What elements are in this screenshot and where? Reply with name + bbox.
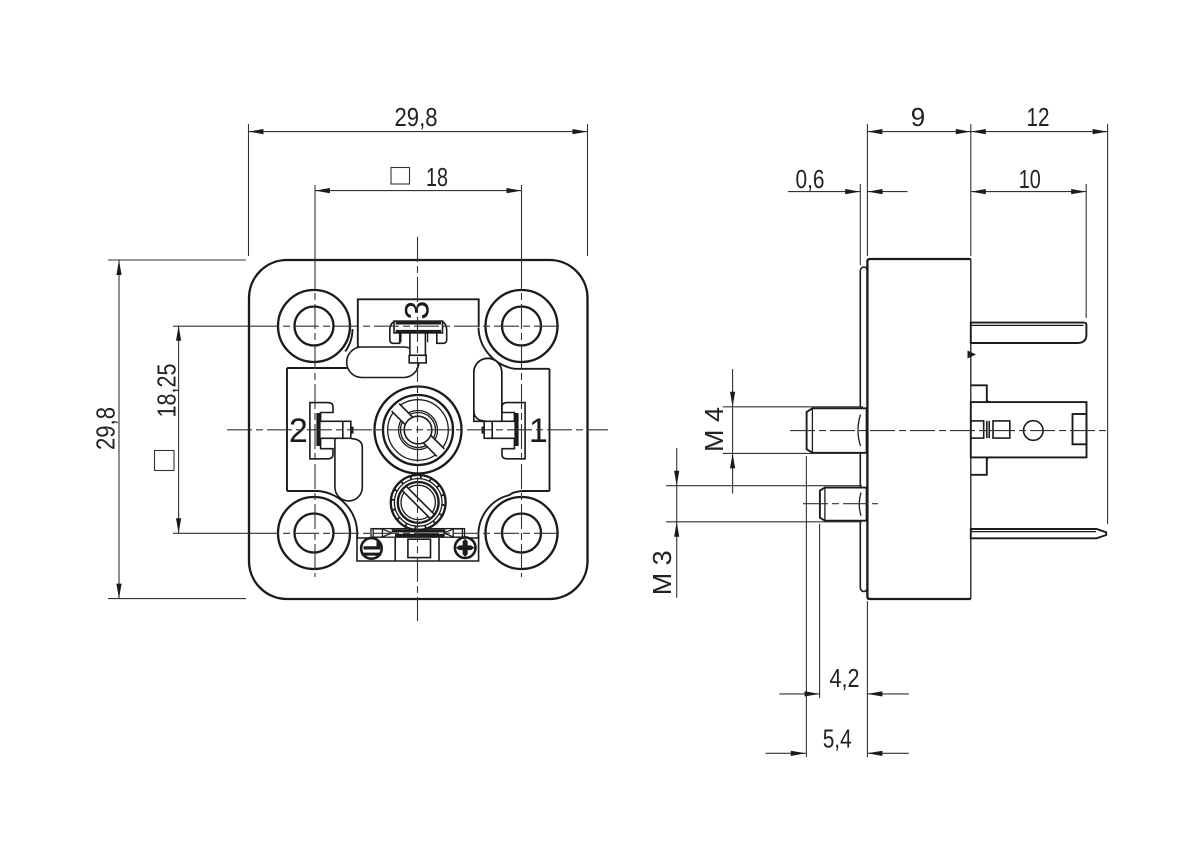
svg-text:1: 1: [529, 412, 548, 450]
svg-text:18: 18: [426, 162, 448, 192]
svg-text:M 3: M 3: [647, 550, 677, 595]
svg-text:29,8: 29,8: [395, 102, 438, 132]
svg-text:10: 10: [1019, 164, 1041, 194]
svg-text:18,25: 18,25: [152, 364, 182, 418]
svg-text:2: 2: [289, 412, 308, 450]
svg-text:5,4: 5,4: [823, 724, 852, 754]
svg-text:9: 9: [911, 102, 925, 132]
svg-text:0,6: 0,6: [796, 164, 825, 194]
svg-text:12: 12: [1027, 102, 1050, 132]
svg-text:M 4: M 4: [699, 407, 729, 452]
svg-text:4,2: 4,2: [830, 663, 860, 693]
svg-text:29,8: 29,8: [91, 407, 121, 450]
